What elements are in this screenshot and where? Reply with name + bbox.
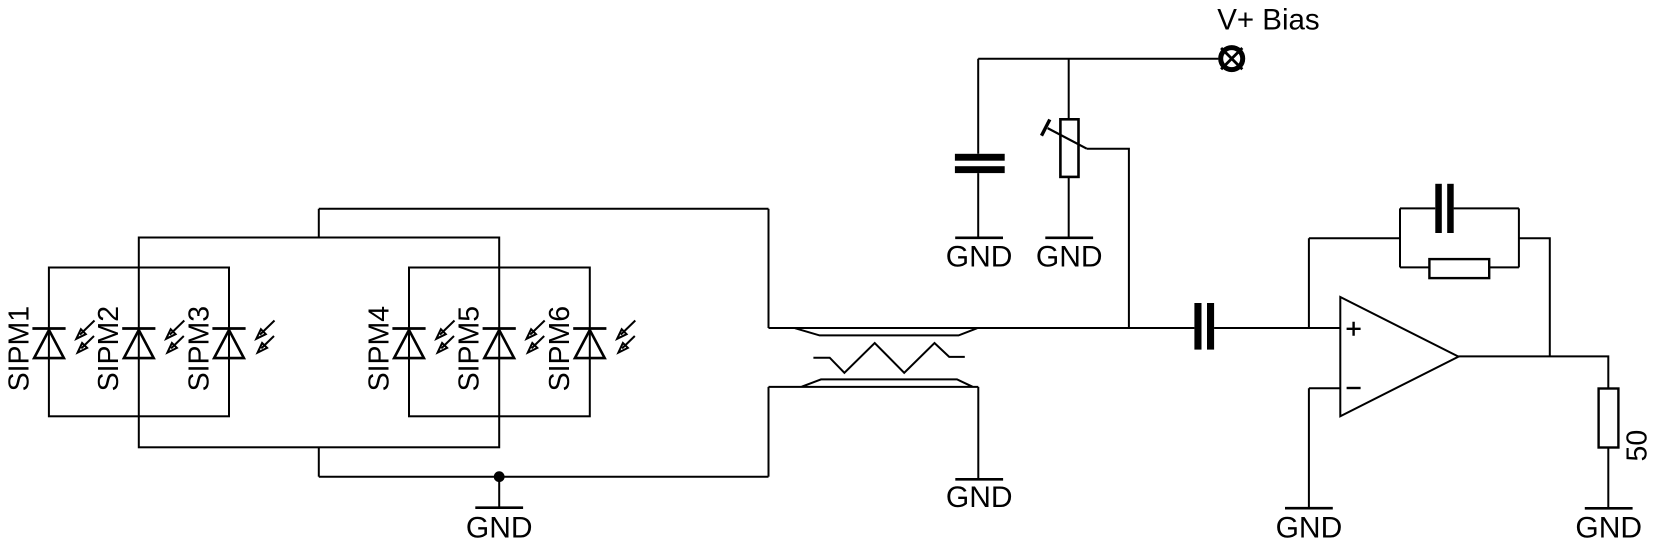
junction node bottom bus [494, 471, 505, 482]
wire transformer left vertical bottom [768, 387, 770, 477]
ground trimmer [1036, 238, 1103, 273]
wire trimmer top lead [1068, 59, 1070, 118]
transformer T1 core zigzag [813, 343, 964, 373]
ground output [1575, 508, 1642, 544]
wire main signal top (transformer primary line to coupling cap) [769, 327, 1195, 329]
terminal V+ Bias [1221, 48, 1243, 70]
ground SiPM bus [466, 508, 533, 545]
wire bottom bus [319, 476, 769, 478]
svg-text:GND: GND [946, 481, 1013, 514]
wire feedback output horizontal [1519, 238, 1550, 356]
svg-text:GND: GND [946, 240, 1013, 273]
transformer T1 secondary winding [769, 379, 979, 387]
wire inverting input [1309, 387, 1340, 389]
svg-text:50: 50 [1622, 430, 1654, 462]
wire parallel-box D (SIPM4-SIPM6) [409, 268, 590, 417]
svg-text:GND: GND [1036, 240, 1103, 273]
wire feedback box right vertical [1518, 208, 1520, 267]
wire feedback input horizontal [1309, 237, 1400, 239]
svg-text:SIPM4: SIPM4 [363, 306, 395, 392]
wire transformer left vertical top [768, 209, 770, 328]
wire junction to ground [498, 477, 500, 507]
ground bias cap [946, 238, 1013, 273]
photodiode SIPM6 [573, 321, 635, 359]
wire bias cap top lead [977, 59, 979, 154]
capacitor C1 bias decoupling [955, 154, 1005, 173]
wire feedback box top edge segments [1400, 207, 1519, 209]
wire inverting input to ground [1308, 388, 1310, 507]
wire parallel-box A (SIPM1-SIPM3) [49, 268, 229, 417]
wire op-amp output [1459, 356, 1609, 388]
wire feedback left vertical to +node [1308, 238, 1310, 328]
capacitor C3 feedback [1435, 184, 1453, 233]
op-amp U1 [1340, 297, 1458, 416]
transformer T1 primary winding [795, 328, 977, 335]
wire 50 ohm resistor to ground [1607, 448, 1609, 508]
resistor R2 feedback [1429, 259, 1489, 278]
ground op-amp inverting [1276, 508, 1343, 544]
wire feedback box left vertical [1399, 208, 1401, 267]
wire outer-to-boxB connector top [318, 209, 320, 238]
wire outer-to-boxB connector bottom [318, 447, 320, 476]
wire trimmer wiper to signal line [1087, 149, 1129, 328]
wire secondary to ground [977, 387, 979, 478]
wire feedback box bottom edge segments [1400, 266, 1519, 268]
svg-text:V+ Bias: V+ Bias [1217, 4, 1320, 37]
photodiode SIPM3 [212, 321, 274, 359]
photodiode SIPM4 [392, 321, 454, 359]
photodiode SIPM5 [483, 321, 545, 359]
photodiode SIPM1 [32, 321, 94, 359]
wire V+ bias rail [978, 58, 1218, 60]
resistor R3 50 ohm [1599, 389, 1619, 448]
svg-text:SIPM2: SIPM2 [93, 306, 125, 392]
wire trimmer bottom lead [1068, 177, 1070, 237]
svg-text:SIPM3: SIPM3 [183, 306, 215, 392]
wire coupling cap to op-amp [1214, 327, 1340, 329]
wire outer bus top edge [319, 208, 769, 210]
svg-text:GND: GND [1575, 511, 1642, 544]
photodiode SIPM2 [122, 321, 184, 359]
svg-text:SIPM6: SIPM6 [544, 306, 576, 392]
wire parallel-box B (SIPM2-SIPM5) [139, 238, 499, 448]
potentiometer R1 bias trimmer [1042, 119, 1087, 177]
svg-text:GND: GND [466, 511, 533, 544]
capacitor C2 coupling [1194, 303, 1214, 350]
svg-text:GND: GND [1276, 511, 1343, 544]
svg-text:SIPM1: SIPM1 [3, 306, 35, 392]
ground secondary [946, 479, 1013, 514]
wire bias cap bottom lead [977, 173, 979, 236]
svg-text:SIPM5: SIPM5 [454, 306, 486, 392]
